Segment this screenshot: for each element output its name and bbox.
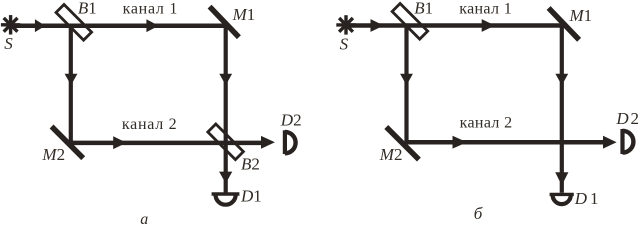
detector D1 (b) — [550, 194, 574, 204]
svg-text:B2: B2 — [241, 155, 260, 174]
arrow right on канал 1 (b) — [482, 19, 495, 32]
svg-text:D1: D1 — [240, 186, 262, 205]
detector D1 — [212, 194, 240, 205]
svg-text:канал 2: канал 2 — [122, 116, 177, 133]
svg-text:B1: B1 — [78, 0, 97, 18]
svg-text:S: S — [340, 35, 349, 54]
arrow right on канал 2 — [113, 136, 126, 149]
wire: vertical beam from B1 down to M2 (b) — [404, 23, 408, 144]
beam splitter B1 — [56, 5, 92, 41]
svg-text:D1: D1 — [574, 189, 599, 208]
mirror M1 (b) — [549, 8, 580, 40]
svg-text:B1: B1 — [414, 0, 433, 17]
arrow down on B1-M2 beam (b) — [400, 74, 413, 85]
arrow down on M1 beam (b) — [555, 74, 568, 85]
wire: beam from S to M1 (канал 1, b) — [347, 23, 564, 28]
arrow right on канал 1 — [146, 19, 158, 32]
svg-text:а: а — [140, 211, 148, 226]
wire: vertical beam from M1 down to D1 (b) — [560, 23, 564, 192]
detector D2 (b) — [623, 129, 634, 154]
svg-text:M1: M1 — [232, 5, 256, 24]
wire: beam from S to M1 (канал 1) — [12, 23, 228, 28]
svg-text:M2: M2 — [41, 145, 65, 164]
svg-text:канал 1: канал 1 — [123, 0, 178, 17]
svg-text:S: S — [4, 34, 13, 53]
arrow down into D1 — [219, 172, 232, 184]
svg-text:б: б — [474, 204, 483, 223]
svg-text:канал 1: канал 1 — [459, 0, 512, 17]
svg-text:M1: M1 — [569, 6, 593, 25]
source S star (b) — [336, 15, 355, 34]
arrow right after S (b) — [371, 19, 384, 32]
arrow right on канал 2 (b) — [453, 136, 468, 149]
wire: vertical beam from M1 down to D1 — [224, 24, 228, 194]
svg-text:D2: D2 — [280, 110, 302, 129]
beam splitter B1 (b) — [392, 4, 428, 40]
wire: beam from M2 to D2 (канал 2) — [69, 141, 263, 146]
arrow down on B1-M2 beam — [65, 74, 78, 85]
beam splitter B2 — [208, 124, 244, 160]
mirror M2 (b) — [386, 127, 419, 160]
mirror M2 — [52, 127, 84, 159]
mirror M1 — [210, 7, 239, 38]
detector D2 — [285, 130, 296, 154]
wire: vertical beam from B1 down to M2 — [69, 24, 73, 146]
wire: beam from M2 to D2 (канал 2, b) — [404, 140, 604, 145]
svg-text:D2: D2 — [615, 109, 639, 128]
arrow right after S — [35, 19, 45, 32]
svg-text:канал 2: канал 2 — [460, 115, 513, 132]
arrow right into D2 — [261, 136, 275, 149]
source S star — [1, 15, 20, 34]
arrow down on M1-B2 beam — [219, 74, 232, 85]
arrow down into D1 (b) — [555, 172, 568, 185]
arrow right into D2 (b) — [603, 136, 617, 149]
svg-text:M2: M2 — [379, 145, 403, 164]
